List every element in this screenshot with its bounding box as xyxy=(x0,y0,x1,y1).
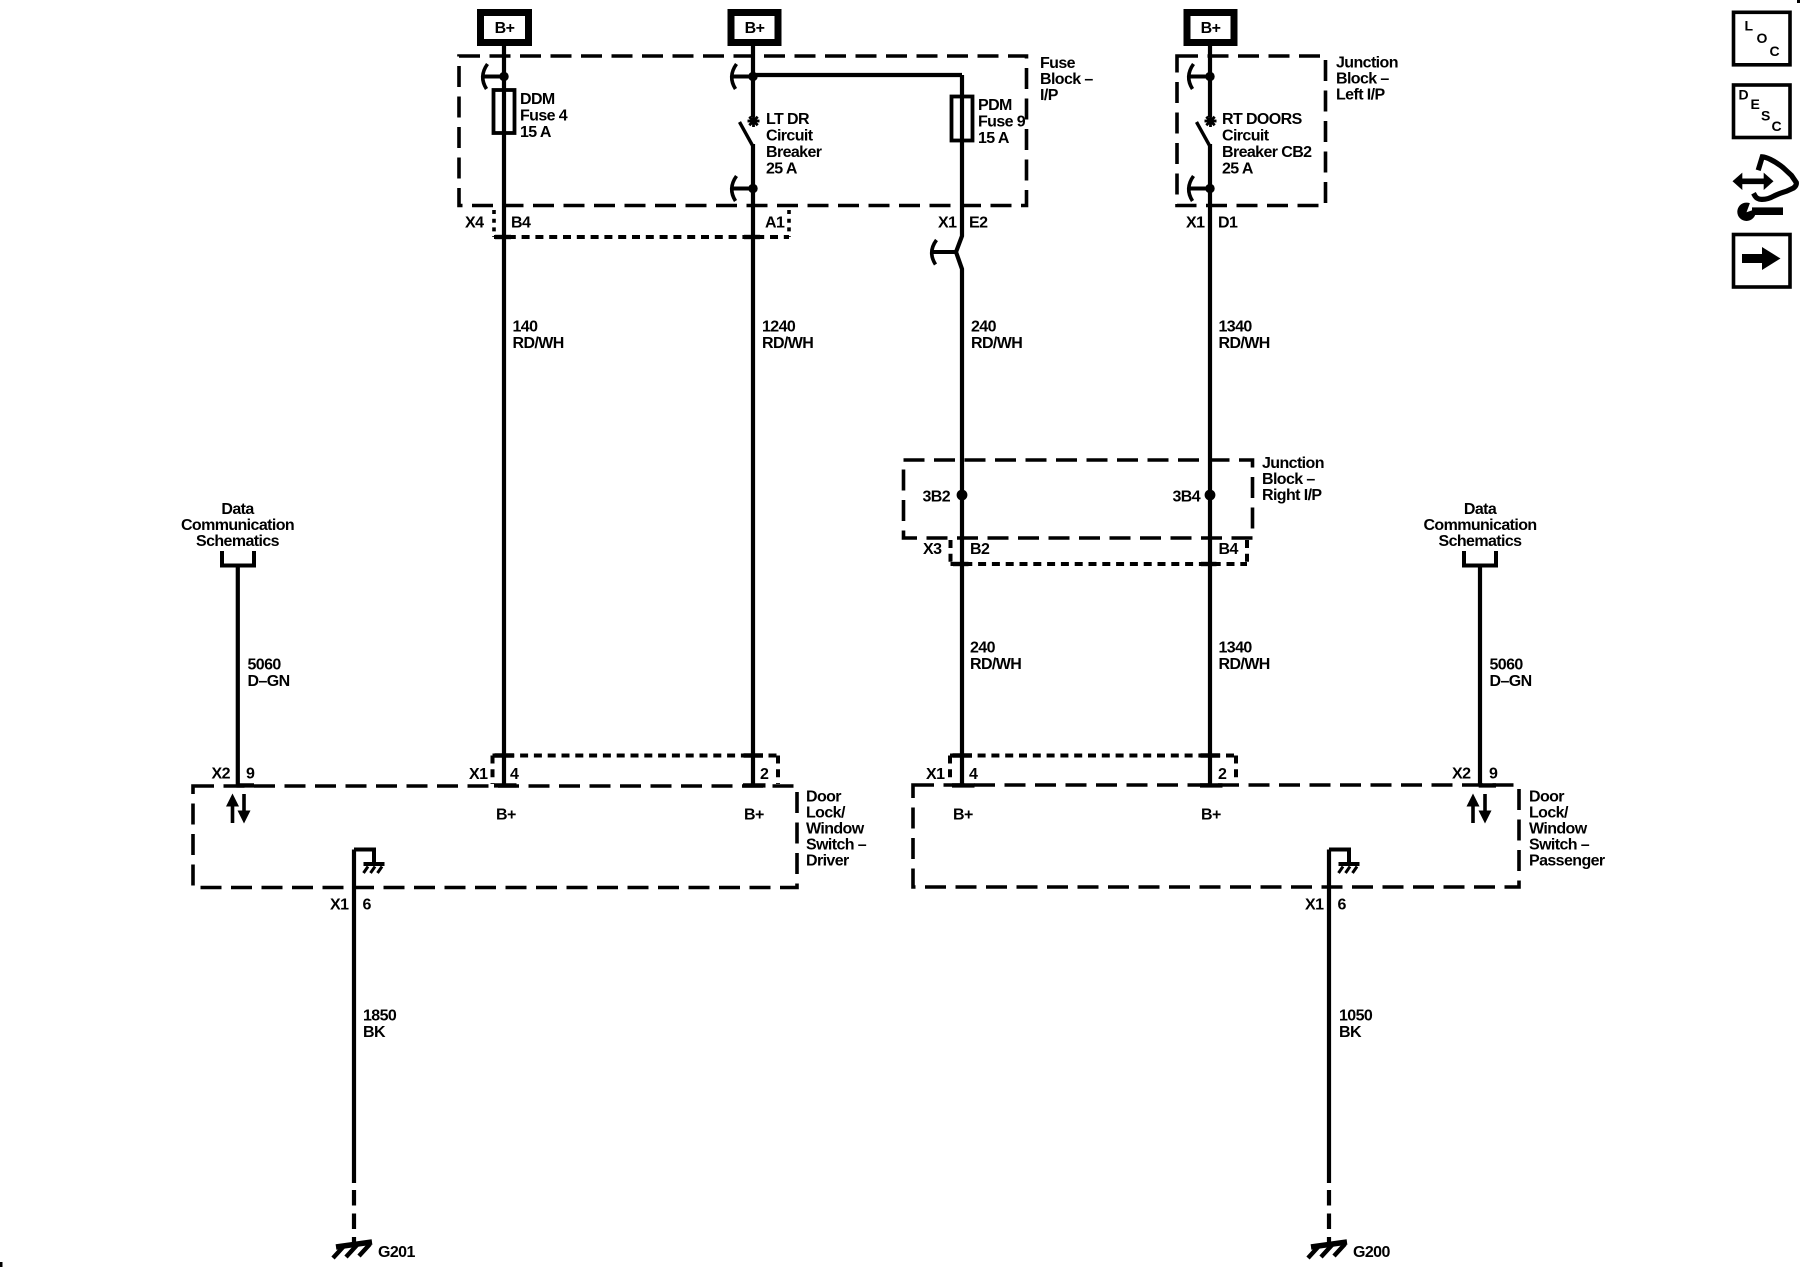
svg-text:RD/WH: RD/WH xyxy=(1219,656,1270,673)
svg-text:RD/WH: RD/WH xyxy=(762,335,813,352)
svg-text:240: 240 xyxy=(971,319,997,336)
svg-text:4: 4 xyxy=(969,766,978,783)
terminal connector at RT DOORS breaker output xyxy=(1189,176,1215,201)
svg-text:X3: X3 xyxy=(923,541,942,558)
svg-text:Circuit: Circuit xyxy=(766,128,814,145)
svg-text:B+: B+ xyxy=(744,807,764,824)
svg-text:Switch –: Switch – xyxy=(806,837,867,854)
svg-text:BK: BK xyxy=(1339,1024,1362,1041)
svg-text:B+: B+ xyxy=(745,20,765,37)
wire label 5060 D-GN (left) xyxy=(248,657,290,691)
pin tick passenger pin 2 strip xyxy=(1201,753,1221,757)
DESC reference box xyxy=(1734,85,1791,138)
pin tick wire 1340 at X3 strip xyxy=(1201,562,1217,566)
svg-text:1340: 1340 xyxy=(1219,319,1253,336)
svg-text:B+: B+ xyxy=(496,807,516,824)
pin tick wire 1240 at fuse block strip xyxy=(744,235,760,239)
wire label 240 RD/WH (lower) xyxy=(970,640,1021,674)
svg-text:L: L xyxy=(1745,18,1754,34)
wire label 1340 RD/WH (lower) xyxy=(1219,640,1270,674)
LT DR Circuit Breaker label xyxy=(766,111,822,178)
svg-text:D–GN: D–GN xyxy=(1490,673,1532,690)
circuit breaker CB (LT DR) asterisk xyxy=(748,115,760,127)
Door Lock/Window Switch - Driver label xyxy=(806,789,867,870)
pin tick driver pin 2 end xyxy=(743,783,766,787)
wire 1240 RD/WH lower (breaker to driver switch pin 2) xyxy=(751,144,755,786)
connector X1 pin 6 labels (driver) xyxy=(330,897,372,914)
svg-text:D: D xyxy=(1739,87,1749,103)
PDM Fuse 9 value label xyxy=(978,97,1026,147)
svg-text:E2: E2 xyxy=(969,215,988,232)
svg-text:Schematics: Schematics xyxy=(1439,533,1523,550)
svg-text:Fuse: Fuse xyxy=(1040,55,1076,72)
svg-text:Window: Window xyxy=(1529,821,1588,838)
svg-text:X1: X1 xyxy=(1305,897,1324,914)
connector X2 pin 9 labels (passenger) xyxy=(1452,766,1498,783)
svg-text:9: 9 xyxy=(246,766,255,783)
connector X3 pin B2 labels xyxy=(923,541,990,558)
pin tick passenger pin 9 end xyxy=(1479,783,1496,787)
dashed splice to G200 xyxy=(1327,1190,1331,1242)
fuse F4 (DDM Fuse 4 15 A) xyxy=(494,90,515,133)
svg-text:B+: B+ xyxy=(495,20,515,37)
next-page arrow box xyxy=(1734,235,1791,288)
fuse block connector dotted strip xyxy=(494,210,789,237)
svg-text:Lock/: Lock/ xyxy=(806,805,846,822)
svg-text:25 A: 25 A xyxy=(1222,161,1254,178)
svg-text:X1: X1 xyxy=(926,766,945,783)
svg-text:Data: Data xyxy=(221,501,254,518)
off-page reference Data Communication Schematics (right) xyxy=(1423,501,1536,550)
svg-text:Breaker: Breaker xyxy=(766,144,822,161)
svg-text:3B2: 3B2 xyxy=(922,489,950,506)
wire 5060 D-GN (right, to passenger switch pin 9) xyxy=(1478,566,1482,787)
driver switch connector X1 dotted strip xyxy=(493,756,779,785)
scan artifact top right corner xyxy=(1797,0,1800,3)
wire label 240 RD/WH xyxy=(971,319,1022,353)
pin tick passenger pin 4 end xyxy=(952,783,975,787)
svg-text:5060: 5060 xyxy=(1490,657,1524,674)
svg-text:3B4: 3B4 xyxy=(1172,489,1200,506)
ground G201 xyxy=(333,1242,415,1261)
svg-text:1240: 1240 xyxy=(762,319,796,336)
passenger switch connector X1 dotted strip xyxy=(950,756,1236,784)
pin tick driver pin 4 end xyxy=(494,783,517,787)
internal ground link (passenger) xyxy=(1329,850,1360,874)
wire label 1240 RD/WH xyxy=(762,319,813,353)
wire jumper from LT DR feed to PDM Fuse 9 xyxy=(753,73,962,77)
svg-text:Block –: Block – xyxy=(1040,71,1093,88)
Door Lock/Window Switch - Passenger dashed enclosure xyxy=(913,785,1519,887)
LOC reference box xyxy=(1734,12,1791,65)
svg-text:C: C xyxy=(1772,118,1782,134)
svg-text:Door: Door xyxy=(1529,789,1564,806)
svg-text:B4: B4 xyxy=(1219,541,1239,558)
connector X1 pin D1 labels xyxy=(1186,215,1238,232)
svg-text:140: 140 xyxy=(513,319,539,336)
DDM Fuse 4 value label xyxy=(520,91,568,141)
connector X4 pin B4 labels xyxy=(465,215,531,232)
svg-text:2: 2 xyxy=(1218,766,1227,783)
RT DOORS Circuit Breaker CB2 label xyxy=(1222,111,1312,178)
wire label 1340 RD/WH xyxy=(1219,319,1270,353)
wire 1340 RD/WH upper (B+ to RT DOORS breaker) xyxy=(1208,46,1212,117)
wire 1340 RD/WH lower (breaker to passenger switch pin 2) xyxy=(1208,144,1212,786)
wire label 140 RD/WH xyxy=(513,319,564,353)
svg-text:B+: B+ xyxy=(953,807,973,824)
power symbol B+ (feeds LT DR Circuit Breaker) xyxy=(731,13,778,43)
svg-text:X1: X1 xyxy=(938,215,957,232)
wire 5060 D-GN (left, to driver switch pin 9) xyxy=(236,566,240,787)
data link arrows (passenger) xyxy=(1467,794,1492,824)
Junction Block - Right I/P dashed enclosure xyxy=(904,460,1253,538)
svg-text:Right I/P: Right I/P xyxy=(1262,487,1322,504)
svg-text:Fuse 4: Fuse 4 xyxy=(520,108,568,125)
svg-text:Schematics: Schematics xyxy=(196,533,280,550)
wire 1240 RD/WH upper (B+ to LT DR breaker) xyxy=(751,46,755,117)
svg-text:Door: Door xyxy=(806,789,841,806)
node 3B4 xyxy=(1172,489,1215,506)
Fuse Block - I/P label xyxy=(1040,55,1093,104)
Junction Block - Right I/P label xyxy=(1262,455,1324,504)
svg-text:Passenger: Passenger xyxy=(1529,853,1605,870)
svg-text:RT DOORS: RT DOORS xyxy=(1222,111,1303,128)
wire 1050 BK (passenger pin 6 to G200) xyxy=(1327,850,1331,1184)
node 3B2 xyxy=(922,489,967,506)
connector X1 pin 6 labels (passenger) xyxy=(1305,897,1347,914)
wire 1850 BK (driver pin 6 to G201) xyxy=(352,850,356,1184)
svg-text:X4: X4 xyxy=(465,215,484,232)
svg-text:5060: 5060 xyxy=(248,657,282,674)
Junction Block - Left I/P label xyxy=(1336,55,1398,104)
svg-text:DDM: DDM xyxy=(520,91,555,108)
svg-text:15 A: 15 A xyxy=(978,130,1010,147)
pin tick driver pin 4 strip xyxy=(495,753,515,757)
terminal connector at LT DR breaker input xyxy=(732,64,758,89)
svg-text:LT DR: LT DR xyxy=(766,111,810,128)
in-line connector at E2 xyxy=(932,240,956,265)
pin tick passenger pin 2 end xyxy=(1200,783,1223,787)
pin tick passenger pin 4 strip xyxy=(953,753,973,757)
power symbol B+ (feeds DDM Fuse 4) xyxy=(481,13,529,43)
svg-text:2: 2 xyxy=(760,766,769,783)
svg-text:1050: 1050 xyxy=(1339,1008,1373,1025)
svg-text:BK: BK xyxy=(363,1024,386,1041)
terminal connector at LT DR breaker output xyxy=(732,176,758,201)
Door Lock/Window Switch - Passenger label xyxy=(1529,789,1605,870)
connector X1 pin 4 pin 2 labels (passenger) xyxy=(926,766,1227,783)
wire 240 RD/WH (PDM fuse down to passenger switch pin 4) xyxy=(956,75,962,786)
data link arrows (driver) xyxy=(226,794,251,824)
svg-text:Lock/: Lock/ xyxy=(1529,805,1569,822)
wire 140 RD/WH (B+ to DDM fuse to driver switch pin 4) xyxy=(502,46,506,786)
circuit breaker CB2 (RT DOORS) asterisk xyxy=(1205,115,1217,127)
svg-text:O: O xyxy=(1757,30,1768,46)
svg-text:I/P: I/P xyxy=(1040,87,1059,104)
internal ground link (driver) xyxy=(354,850,385,874)
svg-text:B+: B+ xyxy=(1201,20,1221,37)
svg-text:240: 240 xyxy=(970,640,996,657)
svg-text:X2: X2 xyxy=(1452,766,1471,783)
wire label 1050 BK xyxy=(1339,1008,1373,1042)
circuit breaker CB (LT DR) blade xyxy=(740,122,753,146)
svg-text:9: 9 xyxy=(1489,766,1498,783)
svg-text:1340: 1340 xyxy=(1219,640,1253,657)
svg-text:B4: B4 xyxy=(511,215,531,232)
svg-text:X1: X1 xyxy=(1186,215,1205,232)
svg-text:Window: Window xyxy=(806,821,865,838)
svg-text:Data: Data xyxy=(1464,501,1497,518)
svg-text:X1: X1 xyxy=(469,766,488,783)
ground G200 xyxy=(1308,1242,1390,1261)
terminal connector at RT DOORS breaker input xyxy=(1189,64,1215,89)
svg-text:B+: B+ xyxy=(1201,807,1221,824)
svg-text:Communication: Communication xyxy=(181,517,294,534)
Junction Block - Left I/P dashed enclosure xyxy=(1177,56,1326,206)
svg-text:E: E xyxy=(1751,96,1760,112)
pin tick wire 240 at X3 strip xyxy=(953,562,969,566)
svg-text:RD/WH: RD/WH xyxy=(1219,335,1270,352)
wire label 5060 D-GN (right) xyxy=(1490,657,1532,691)
svg-text:X2: X2 xyxy=(212,766,231,783)
service tools icon xyxy=(1733,157,1797,221)
svg-text:6: 6 xyxy=(1338,897,1347,914)
svg-text:Switch –: Switch – xyxy=(1529,837,1590,854)
svg-text:Fuse 9: Fuse 9 xyxy=(978,114,1026,131)
connector X2 pin 9 labels (driver) xyxy=(212,766,256,783)
svg-text:RD/WH: RD/WH xyxy=(970,656,1021,673)
svg-text:S: S xyxy=(1761,108,1770,124)
svg-text:Left I/P: Left I/P xyxy=(1336,87,1385,104)
Fuse Block - I/P dashed enclosure xyxy=(459,56,1027,206)
svg-text:G200: G200 xyxy=(1353,1244,1390,1261)
off-page reference Data Communication Schematics (left) xyxy=(181,501,294,550)
svg-text:6: 6 xyxy=(363,897,372,914)
off-page bracket (right) xyxy=(1462,551,1498,566)
svg-text:Junction: Junction xyxy=(1262,455,1324,472)
pin tick driver pin 9 end xyxy=(237,783,255,787)
svg-text:Communication: Communication xyxy=(1423,517,1536,534)
svg-text:B2: B2 xyxy=(970,541,990,558)
svg-text:Driver: Driver xyxy=(806,853,849,870)
svg-text:D1: D1 xyxy=(1218,215,1238,232)
dashed splice to G201 xyxy=(352,1190,356,1242)
wire label 1850 BK xyxy=(363,1008,397,1042)
power symbol B+ (feeds RT DOORS Circuit Breaker CB2) xyxy=(1187,13,1234,43)
pin tick driver pin 2 strip xyxy=(744,753,764,757)
svg-text:15 A: 15 A xyxy=(520,124,552,141)
svg-text:G201: G201 xyxy=(378,1244,415,1261)
fuse F9 (PDM Fuse 9 15 A) xyxy=(952,97,973,141)
svg-text:Junction: Junction xyxy=(1336,55,1398,72)
svg-text:Breaker CB2: Breaker CB2 xyxy=(1222,144,1312,161)
svg-text:D–GN: D–GN xyxy=(248,673,290,690)
circuit breaker CB2 (RT DOORS) blade xyxy=(1197,122,1210,146)
pin tick wire 140 at fuse block strip xyxy=(495,235,511,239)
connector X1 pin 4 pin 2 labels (driver) xyxy=(469,766,769,783)
svg-text:RD/WH: RD/WH xyxy=(971,335,1022,352)
Door Lock/Window Switch - Driver dashed enclosure xyxy=(193,786,797,888)
svg-text:Circuit: Circuit xyxy=(1222,128,1270,145)
terminal connector at DDM fuse input xyxy=(483,64,509,89)
svg-text:4: 4 xyxy=(510,766,519,783)
scan artifact bottom left edge xyxy=(0,1262,3,1267)
svg-text:1850: 1850 xyxy=(363,1008,397,1025)
svg-text:RD/WH: RD/WH xyxy=(513,335,564,352)
svg-text:X1: X1 xyxy=(330,897,349,914)
svg-text:Block –: Block – xyxy=(1336,71,1389,88)
svg-text:A1: A1 xyxy=(765,215,785,232)
connector X1 pin E2 labels xyxy=(938,215,988,232)
svg-text:PDM: PDM xyxy=(978,97,1012,114)
junction block right connector dotted strip xyxy=(951,540,1248,564)
svg-text:Block –: Block – xyxy=(1262,471,1315,488)
svg-text:25 A: 25 A xyxy=(766,161,798,178)
off-page bracket (left) xyxy=(220,551,256,566)
svg-text:C: C xyxy=(1770,43,1780,59)
